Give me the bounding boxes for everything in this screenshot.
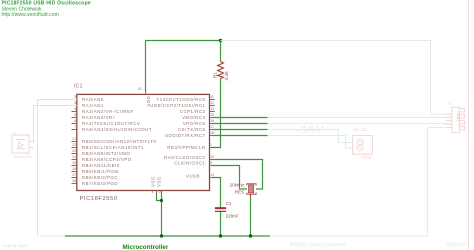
wire RC6 faded to RS232 [268,130,353,143]
svg-text:USB I/O: USB I/O [446,242,466,248]
frame right edge [468,0,470,250]
svg-text:28: 28 [72,179,76,183]
svg-text:R1: R1 [213,72,218,78]
svg-text:19: 19 [158,190,162,194]
svg-text:5: 5 [74,113,76,117]
IC1 right pin numbers [210,95,214,177]
svg-text:USB1: USB1 [456,111,461,122]
svg-text:C1: C1 [226,201,232,206]
wire VDD rail [146,40,221,42]
IC1 left pin leads [72,100,77,184]
IC1 left pin numbers 2-7, 21-28 [72,95,76,183]
svg-text:CCP1/RC2: CCP1/RC2 [180,109,206,114]
USB connector X1 faded [446,107,465,132]
svg-text:T13CKI/T1OSO/RC0: T13CKI/T1OSO/RC0 [157,97,206,102]
svg-text:CLKIN/OSC1: CLKIN/OSC1 [174,160,205,165]
wire C1 to ground [220,212,222,236]
svg-text:TX_232_RX_A: TX_232_RX_A [297,129,320,133]
wire VSS pin 8 down [157,194,162,201]
svg-text:VUSB: VUSB [186,173,200,178]
svg-text:VSS: VSS [151,177,156,187]
svg-text:ST232: ST232 [362,156,372,160]
capacitor C1 [215,208,226,211]
wire OSC2 to resonator [212,160,263,190]
node ground C1 [219,234,222,237]
svg-text:23: 23 [72,149,76,153]
wire VDD rail faded continuation to USB VBUS [221,41,448,115]
resistor R1 [218,62,224,79]
svg-text:RA0/AN0: RA0/AN0 [82,97,104,102]
svg-text:RA6/CLKO/OSC2: RA6/CLKO/OSC2 [164,155,205,160]
node ground resonator [249,234,252,237]
faded analog input wire RA0 [38,100,77,237]
svg-text:RB6/KBI2/PGC: RB6/KBI2/PGC [82,175,118,180]
svg-text:http://www.semifluid.com: http://www.semifluid.com [2,12,59,18]
svg-text:10: 10 [210,155,214,159]
IC1 right pin labels [150,97,205,178]
svg-text:CK/TX/RC6: CK/TX/RC6 [178,127,205,132]
RS232 level converter faded box [353,136,373,155]
svg-text:22: 22 [72,143,76,147]
svg-text:RB3/AN9/CCP2/VPO: RB3/AN9/CCP2/VPO [82,157,132,162]
svg-text:RA1/AN1: RA1/AN1 [82,103,104,108]
svg-text:18: 18 [210,131,214,135]
svg-text:8: 8 [152,190,154,194]
svg-text:RA2/AN2/VR-/CVREF: RA2/AN2/VR-/CVREF [82,109,134,114]
faded analog input wire RA1 [29,106,77,142]
svg-text:RA4/T0CKI/C1OUT/RCV: RA4/T0CKI/C1OUT/RCV [82,121,140,126]
svg-text:IC1: IC1 [74,83,83,89]
wire resonator ground [250,197,252,237]
svg-text:RB2/AN8/INT2/VMO: RB2/AN8/INT2/VMO [82,151,130,156]
svg-text:20: 20 [138,87,142,91]
svg-text:RES: RES [235,190,244,195]
wire RC4 faded to USB D- [268,117,448,119]
node VDD junction [219,39,222,42]
svg-text:24: 24 [72,155,76,159]
IC1 left pin labels [82,97,156,186]
svg-text:Analog Input: Analog Input [2,243,29,248]
svg-text:RA5/AN4/SS/HLVDIN/C2OUT: RA5/AN4/SS/HLVDIN/C2OUT [82,127,152,132]
ground rail [65,235,270,237]
wire RC5 [212,123,268,125]
svg-text:RE3/VPP/MCLR: RE3/VPP/MCLR [167,145,205,150]
svg-text:VMO/RC4: VMO/RC4 [182,115,206,120]
wire RC5 faded to USB D+ [268,123,448,126]
wire RC6 [212,129,268,131]
svg-text:VPO/RC5: VPO/RC5 [183,121,206,126]
svg-text:4: 4 [74,107,76,111]
svg-text:3: 3 [74,101,76,105]
svg-text:15: 15 [210,113,214,117]
svg-text:220nF: 220nF [226,213,239,218]
svg-text:X1: X1 [447,102,451,106]
svg-text:27: 27 [72,173,76,177]
wire OSC1 to resonator [212,166,247,190]
svg-text:VSS: VSS [156,177,161,187]
svg-text:14: 14 [210,173,214,177]
svg-text:RA3/AN3/VR+: RA3/AN3/VR+ [82,115,116,120]
svg-text:11: 11 [210,95,214,99]
svg-text:VDD: VDD [146,96,151,107]
wire RC7 [212,135,268,137]
svg-text:SDO/DT/RX/RC7: SDO/DT/RX/RC7 [165,133,205,138]
wire USB ground faded [428,128,448,237]
svg-text:RB1/SCL/SCK/AN10/INT1: RB1/SCL/SCK/AN10/INT1 [82,145,144,150]
ground rail faded left [40,235,65,237]
wire RC4 [212,117,268,119]
wire VUSB to C1 [212,178,221,208]
svg-text:RB4/AN11/KBI0: RB4/AN11/KBI0 [82,163,120,168]
svg-text:RB7/KBI3/PGD: RB7/KBI3/PGD [82,181,118,186]
IC1 VSS pins 8 and 19 bottom [156,191,158,195]
svg-text:13: 13 [210,107,214,111]
svg-text:RB5/KBI1/PGM: RB5/KBI1/PGM [82,169,119,174]
svg-text:1: 1 [210,143,212,147]
title text block [2,0,91,18]
wire RC7 faded to RS232 [268,136,353,149]
ground rail faded right [270,235,428,237]
wire R1 top [220,41,222,62]
wire VSS pin 19 down to ground rail [161,194,163,237]
svg-text:PHONEJACK: PHONEJACK [13,155,33,159]
svg-text:25: 25 [72,161,76,165]
svg-text:26: 26 [72,167,76,171]
svg-text:RS-232: RS-232 [354,127,368,132]
svg-text:12: 12 [210,101,214,105]
svg-text:RS232 Level Converter: RS232 Level Converter [290,242,346,248]
svg-text:17: 17 [210,125,214,129]
svg-text:7: 7 [74,125,76,129]
svg-text:2: 2 [74,95,76,99]
node ground VSS [160,234,163,237]
svg-text:3.3K: 3.3K [224,70,229,80]
svg-text:UOE/CCP2/T1OSI/RC1: UOE/CCP2/T1OSI/RC1 [150,103,205,108]
faded audio jack connector [12,135,34,153]
resonator RES 20MHz [247,184,256,197]
svg-text:6: 6 [74,119,76,123]
svg-text:PIC18F2550 USB HID Oscilloscop: PIC18F2550 USB HID Oscilloscope [2,0,91,6]
svg-text:RB0/SDA/SDI/AN12/INT0/FLT0: RB0/SDA/SDI/AN12/INT0/FLT0 [82,139,156,144]
svg-text:21: 21 [72,137,76,141]
svg-text:20MHz: 20MHz [230,182,245,187]
svg-text:Microcontroller: Microcontroller [123,244,169,250]
wire R1 bottom to MCLR [212,79,221,148]
svg-text:PIC18F2550: PIC18F2550 [80,196,118,202]
IC1 VDD pin 20 top [145,90,147,94]
node VSS join [160,199,163,202]
IC1 right pin leads [210,100,215,178]
svg-text:16: 16 [210,119,214,123]
svg-text:X1: X1 [13,131,17,135]
IC1 PIC18F2550 body [77,94,210,190]
svg-text:9: 9 [210,161,212,165]
wire VDD drop to pin 20 [145,41,147,92]
